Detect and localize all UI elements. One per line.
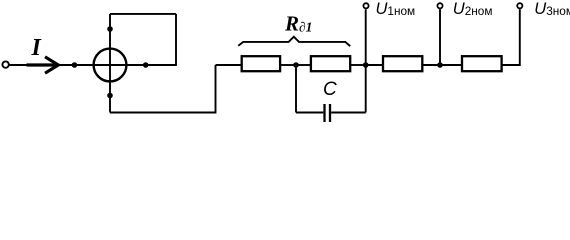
converter U1 (circle with crossed lines) bbox=[94, 49, 127, 82]
brace for Rd1 group bbox=[238, 37, 350, 46]
wire: feedback loop top bbox=[110, 13, 176, 15]
current arrow I (thick shaft) bbox=[27, 63, 57, 66]
wire: U2nom vertical bbox=[439, 9, 441, 65]
wire: node E down to capacitor branch bbox=[295, 65, 297, 113]
wire: R2 to node F bbox=[350, 64, 366, 66]
wire: vertical through converter (top loop corner to bottom corner) bbox=[109, 14, 111, 113]
svg-text:U2ном: U2ном bbox=[453, 0, 493, 18]
node F (junction under U1nom terminal) bbox=[363, 62, 369, 68]
current arrow head bbox=[45, 57, 58, 73]
terminal U3nom bbox=[517, 3, 522, 8]
resistor R2 bbox=[311, 56, 350, 71]
wire: bottom from converter to riser bbox=[110, 65, 216, 113]
node D (dot below converter) bbox=[107, 93, 113, 99]
wire: node E to resistor R2 bbox=[296, 64, 311, 66]
wire: R3 to node G bbox=[422, 64, 440, 66]
wire: node G to resistor R4 bbox=[440, 64, 462, 66]
svg-text:C: C bbox=[323, 79, 337, 100]
node A (junction dot before converter) bbox=[72, 62, 78, 68]
wire: riser to resistor R1 bbox=[216, 64, 242, 66]
svg-text:U1ном: U1ном bbox=[376, 0, 416, 18]
resistor R4 bbox=[462, 56, 502, 71]
capacitor C left wire bbox=[296, 112, 323, 114]
capacitor C plate 2 bbox=[329, 104, 331, 122]
node G (junction under U2nom terminal) bbox=[437, 62, 443, 68]
input terminal (left, open circle) bbox=[2, 61, 8, 67]
wire: input terminal to node A bbox=[9, 64, 74, 66]
capacitor C plate 1 bbox=[323, 104, 325, 122]
wire: node F to resistor R3 bbox=[366, 64, 383, 66]
terminal U2nom bbox=[437, 3, 442, 8]
wire: horizontal through converter, node A to loop corner bbox=[75, 64, 177, 66]
wire: R1 to node E bbox=[280, 64, 296, 66]
wire: R4 to U3nom corner bbox=[502, 9, 520, 65]
resistor R3 bbox=[383, 56, 422, 71]
resistor R1 bbox=[242, 56, 280, 71]
terminal U1nom bbox=[363, 3, 368, 8]
svg-text:U3ном: U3ном bbox=[534, 0, 570, 18]
capacitor C right wire bbox=[331, 112, 366, 114]
wire: feedback loop right vertical bbox=[175, 14, 177, 66]
node B (polarity dot on upper vertical) bbox=[107, 26, 113, 32]
node E (junction dot after R1) bbox=[293, 62, 299, 68]
wire: U1nom vertical (terminal to bottom capacitor wire) bbox=[365, 9, 367, 112]
svg-text:I: I bbox=[31, 35, 43, 61]
node C2 (dot right of converter) bbox=[143, 62, 149, 68]
